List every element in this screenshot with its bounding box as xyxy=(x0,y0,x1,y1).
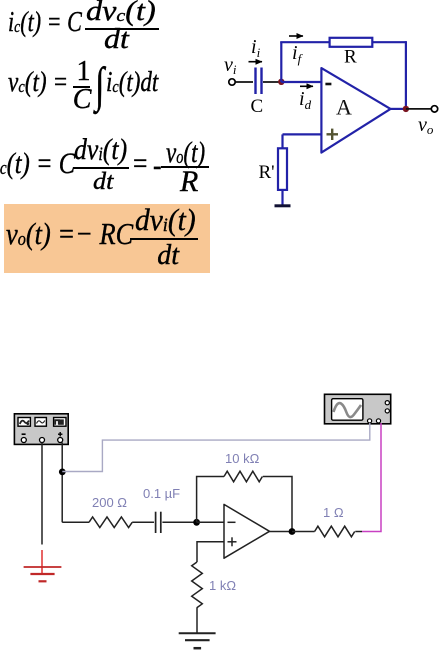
label vi xyxy=(224,54,237,77)
input terminal vi xyxy=(229,79,235,85)
svg-text:R: R xyxy=(344,47,357,68)
label A xyxy=(336,95,352,120)
label R' xyxy=(259,162,275,183)
ground (red, analog ground) xyxy=(24,550,62,581)
label ii xyxy=(251,36,261,60)
equation 2: vc(t) = 1/C snake ic(t)dt xyxy=(8,69,68,97)
label 1 kohm xyxy=(209,578,236,593)
current arrow ii xyxy=(249,61,263,63)
wire feedback top right xyxy=(372,41,406,109)
svg-text:200 Ω: 200 Ω xyxy=(92,495,127,510)
wire node to op-amp minus input xyxy=(281,81,321,83)
label vo xyxy=(418,114,434,137)
svg-text:id: id xyxy=(299,88,312,112)
resistor R' xyxy=(278,148,287,190)
label id xyxy=(299,88,312,112)
svg-text:1 Ω: 1 Ω xyxy=(323,505,344,520)
minus sign at inverting input xyxy=(325,83,331,86)
equation 4 (highlighted): vo(t) = -RC dvi(t)/dt xyxy=(6,218,133,249)
svg-text:C: C xyxy=(251,96,264,117)
feedback wire up and across xyxy=(197,477,224,523)
svg-text:A: A xyxy=(336,95,352,120)
svg-text:ii: ii xyxy=(251,36,261,60)
op-amp A triangle xyxy=(321,68,390,153)
label 200 ohm xyxy=(92,495,127,510)
ground (top circuit) xyxy=(275,204,291,207)
label 1 ohm xyxy=(323,505,344,520)
label 10 kohm xyxy=(225,451,260,466)
resistor 10 kohm xyxy=(224,471,262,482)
wire: generator + terminal down xyxy=(61,443,63,523)
label if xyxy=(292,42,304,66)
wire R' to ground xyxy=(281,190,283,205)
equation 1: ic(t) = C dvc(t)/dt xyxy=(8,9,82,37)
output node (junction dot) xyxy=(403,106,409,112)
wire (pale blue) generator to oscilloscope channel A xyxy=(62,423,370,472)
wire node up to feedback xyxy=(280,42,282,82)
plus sign (bottom op-amp) xyxy=(228,537,237,546)
label 0.1 uF xyxy=(143,486,180,501)
wire 1 kohm to ground xyxy=(196,607,198,633)
resistor 200 ohm xyxy=(89,517,132,528)
label C xyxy=(251,96,264,117)
wire op-amp output to node xyxy=(270,531,293,533)
svg-text:0.1 µF: 0.1 µF xyxy=(143,486,180,501)
svg-text:R': R' xyxy=(259,162,275,183)
wire (magenta) output to oscilloscope channel B xyxy=(362,423,381,532)
label R xyxy=(344,47,357,68)
wire node to 1 ohm xyxy=(292,531,315,533)
svg-text:1 kΩ: 1 kΩ xyxy=(209,578,236,593)
current arrow id xyxy=(300,85,313,87)
svg-text:if: if xyxy=(292,42,304,66)
wire to 200 ohm resistor xyxy=(62,521,89,523)
svg-text:vo: vo xyxy=(418,114,434,137)
current arrow if xyxy=(289,35,303,37)
wire capacitor to node xyxy=(263,81,281,83)
wire feedback top left xyxy=(280,41,330,43)
oscilloscope XSC1 xyxy=(325,394,391,424)
node at inverting input (junction dot) xyxy=(278,79,284,85)
resistor 1 kohm (vertical) xyxy=(192,562,203,608)
resistor R xyxy=(330,38,373,47)
wire: generator COM terminal down to red ground xyxy=(41,443,43,545)
svg-text:vi: vi xyxy=(224,54,237,77)
wire node to output terminal xyxy=(406,108,431,110)
capacitor C xyxy=(256,68,262,95)
junction node at generator output xyxy=(59,469,66,476)
wire plus input left and down xyxy=(197,542,224,562)
wire plus input to R' xyxy=(283,134,322,148)
highlight box behind equation 4 xyxy=(4,204,210,273)
ground (black, bottom) xyxy=(179,633,216,648)
equation 3: ic(t) = C dvi(t)/dt = - vo(t)/R xyxy=(0,149,75,179)
wire op-amp output to node xyxy=(391,108,406,110)
function generator XFG1 xyxy=(14,414,68,445)
output terminal vo xyxy=(431,106,437,112)
capacitor 0.1 uF xyxy=(156,512,161,533)
op-amp triangle (bottom circuit) xyxy=(224,504,270,558)
wire node to op-amp minus xyxy=(197,521,224,523)
feedback wire right side down to output xyxy=(263,477,292,532)
plus sign at non-inverting input xyxy=(327,129,339,140)
wire input to capacitor xyxy=(236,81,253,83)
junction node at op-amp inverting input xyxy=(193,519,200,526)
svg-text:10 kΩ: 10 kΩ xyxy=(225,451,260,466)
minus sign (bottom op-amp) xyxy=(228,521,236,523)
wire 1 ohm to magenta xyxy=(355,531,362,533)
resistor 1 ohm xyxy=(315,526,355,537)
wire resistor to capacitor xyxy=(132,521,154,523)
wire capacitor to input node xyxy=(162,521,196,523)
junction node at output xyxy=(289,528,296,535)
